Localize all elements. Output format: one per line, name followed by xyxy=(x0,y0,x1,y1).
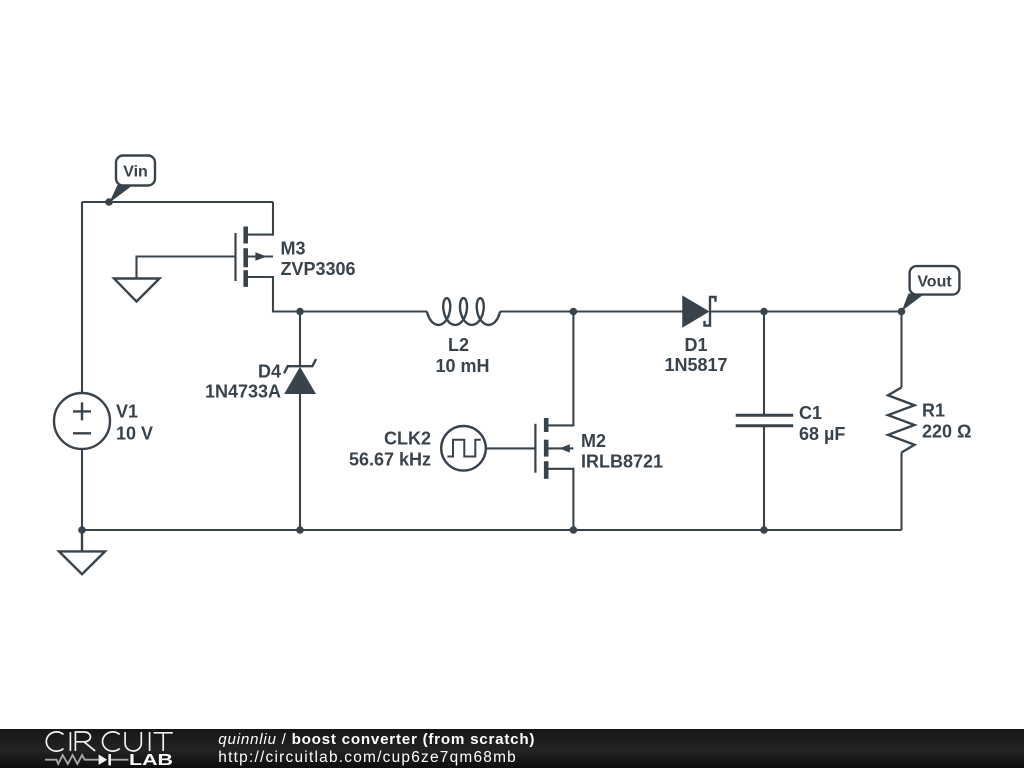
svg-text:56.67 kHz: 56.67 kHz xyxy=(349,450,431,470)
node D4 top junction xyxy=(296,308,304,316)
voltage source V1 xyxy=(54,393,110,449)
ground (M3 gate) xyxy=(114,279,160,302)
svg-text:L2: L2 xyxy=(448,335,469,355)
flag Vin xyxy=(109,156,155,204)
svg-text:D1: D1 xyxy=(684,335,707,355)
node D4 bottom junction xyxy=(296,526,304,534)
svg-text:V1: V1 xyxy=(116,402,138,422)
inductor L2 xyxy=(427,298,500,325)
clock source CLK2 xyxy=(441,426,486,471)
node M2 source junction xyxy=(570,526,578,534)
wire D4 bottom xyxy=(299,393,301,530)
wire top rail Vin xyxy=(82,201,273,203)
ground (bottom left) xyxy=(59,530,105,574)
mosfet M3 (PMOS ZVP3306) xyxy=(236,227,246,287)
wire left rail V1 top xyxy=(81,202,83,393)
wire V1 bottom to ground rail xyxy=(81,449,83,530)
schottky diode D1 (1N5817) xyxy=(683,297,716,327)
node V1 ground junction xyxy=(78,526,86,534)
svg-text:68 µF: 68 µF xyxy=(799,424,845,444)
wire M3 drain riser xyxy=(248,202,273,235)
wire M2 body tie xyxy=(548,447,573,449)
svg-text:10 mH: 10 mH xyxy=(435,356,489,376)
svg-text:IRLB8721: IRLB8721 xyxy=(581,452,663,472)
footer bar xyxy=(0,729,1024,768)
wire CLK2 to M2 gate xyxy=(486,447,535,449)
wire bottom ground rail xyxy=(82,529,902,531)
wire C1 bottom xyxy=(763,426,765,530)
svg-text:quinnliu / boost converter (fr: quinnliu / boost converter (from scratch… xyxy=(218,731,535,748)
wire M3 gate to ground xyxy=(137,257,236,279)
logo CIRCUIT wordmark xyxy=(46,732,173,751)
node M2 drain junction xyxy=(570,308,578,316)
zener diode D4 (1N4733A) xyxy=(284,359,316,393)
M3 body arrow xyxy=(255,252,266,260)
node C1 top junction xyxy=(760,308,768,316)
svg-text:http://circuitlab.com/cup6ze7q: http://circuitlab.com/cup6ze7qm68mb xyxy=(218,749,517,766)
svg-text:Vin: Vin xyxy=(123,164,148,181)
wire M3 body tie xyxy=(248,255,273,257)
capacitor C1 xyxy=(736,415,794,426)
flag Vout xyxy=(902,266,960,311)
svg-text:10 V: 10 V xyxy=(116,424,153,444)
svg-text:1N5817: 1N5817 xyxy=(664,355,727,375)
wire R1 bottom xyxy=(900,453,902,531)
logo diode xyxy=(99,754,108,765)
logo diode cathode bar xyxy=(108,754,111,765)
wire R1 top xyxy=(900,312,902,388)
svg-text:1N4733A: 1N4733A xyxy=(205,382,281,402)
logo wire to LAB xyxy=(111,759,129,761)
logo resistor+wire xyxy=(45,755,99,764)
resistor R1 xyxy=(888,387,915,452)
svg-text:C1: C1 xyxy=(799,403,822,423)
svg-text:M2: M2 xyxy=(581,431,606,451)
svg-text:M3: M3 xyxy=(281,239,306,259)
svg-text:LAB: LAB xyxy=(129,752,173,768)
mosfet M2 (NMOS IRLB8721) xyxy=(535,418,546,479)
svg-text:ZVP3306: ZVP3306 xyxy=(281,259,356,279)
wire M3 source drop xyxy=(248,277,427,312)
node Vin junction xyxy=(105,198,113,206)
wire M2 source drop xyxy=(548,469,573,530)
svg-text:220 Ω: 220 Ω xyxy=(922,422,971,442)
svg-text:D4: D4 xyxy=(258,362,281,382)
wire L2 to M2 drain junction xyxy=(500,310,573,312)
svg-text:Vout: Vout xyxy=(917,274,952,291)
svg-text:CLK2: CLK2 xyxy=(384,429,431,449)
wire M2 drain riser xyxy=(548,312,573,426)
wire D4 top xyxy=(299,312,301,367)
wire C1 top xyxy=(763,312,765,416)
svg-text:R1: R1 xyxy=(922,401,945,421)
node C1 bottom junction xyxy=(760,526,768,534)
wire D1 cathode to C1 and R1 xyxy=(710,310,902,312)
M2 body arrow xyxy=(559,444,570,452)
node Vout junction xyxy=(898,308,906,316)
wire M2 junction to D1 anode xyxy=(573,310,683,312)
